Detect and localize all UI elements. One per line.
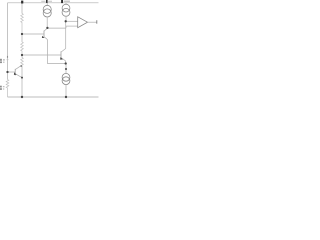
junction dot tail node [65, 62, 67, 64]
label smudge top center left [41, 1, 45, 2]
label R4 line2 [0, 88, 2, 90]
wire base feed Q3 [8, 71, 16, 73]
junction dot Q3 base [6, 71, 8, 73]
arrow Q1 emitter [42, 36, 45, 38]
resistor R3 [21, 58, 24, 67]
junction dot buffer input node [65, 20, 67, 22]
wire buffer input - [66, 25, 78, 27]
wire left bus below source [7, 58, 9, 80]
transistor Q1 [43, 31, 45, 38]
junction dot Q3 emitter [21, 77, 23, 79]
wire Q2 collector up [65, 21, 67, 48]
wire bottom rail [8, 96, 99, 98]
node marker top x47 [46, 0, 48, 3]
junction dot Q1 collector [46, 27, 48, 29]
wire top rail VCC [8, 2, 99, 4]
wire Q2 base [22, 54, 61, 56]
arrow Q2 emitter [60, 57, 63, 60]
label V1 line2 [0, 61, 2, 63]
current source I1 [46, 3, 48, 6]
output terminal [96, 20, 98, 24]
wire x22 mid [21, 34, 23, 42]
current source I3 [62, 73, 70, 81]
label V1 line1 [0, 59, 2, 61]
label smudge top right [64, 1, 70, 3]
resistor R2 [21, 42, 24, 55]
junction dot Q3 collector [20, 65, 22, 67]
resistor R4 [6, 80, 9, 98]
junction dot x66 lower [65, 68, 67, 70]
current source I2 [65, 3, 67, 5]
wire output [88, 21, 97, 23]
wire buffer input + [66, 20, 78, 22]
wire tail node down [65, 64, 67, 74]
voltage source V1 [7, 56, 8, 58]
junction dot Q2 base node [21, 54, 23, 56]
label smudge top center right [48, 1, 52, 2]
wire Q1 base [22, 33, 44, 35]
wire x22 lower [21, 55, 23, 97]
transistor Q3 [14, 69, 16, 76]
node marker top x22 [21, 1, 23, 4]
node marker top x62 [61, 0, 63, 3]
junction dot bottom rail left [21, 96, 23, 98]
wire Q1 collector to node [47, 27, 66, 29]
wire Q1 emitter down [48, 40, 66, 64]
junction dot bottom rail right [65, 96, 67, 98]
resistor R1 [21, 14, 24, 35]
wire mid vertical x22 [21, 3, 23, 14]
junction dot Q1 base node [21, 33, 23, 35]
arrow Q3 emitter [14, 72, 17, 75]
wire Q2 emitter down [65, 61, 67, 64]
op-amp buffer U1 [78, 17, 88, 28]
label R4 line1 [0, 86, 2, 88]
wire left vertical bus [7, 3, 9, 56]
transistor Q2 [60, 51, 62, 58]
